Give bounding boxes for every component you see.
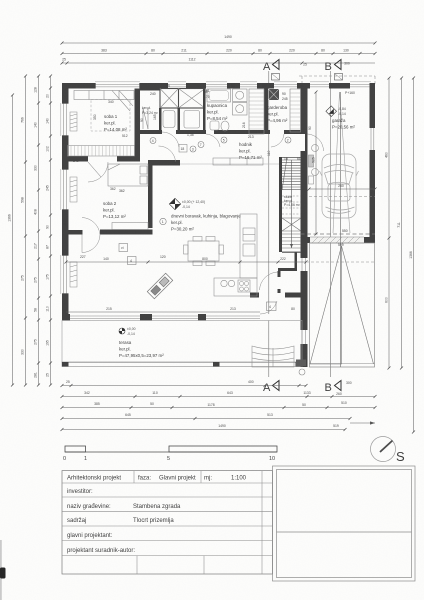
WC label — [142, 106, 159, 115]
wall kupaonica/garderoba — [264, 89, 268, 133]
entrance door arc — [260, 301, 277, 314]
right dimension chain line 1 — [385, 77, 391, 370]
shaft box with X cells — [160, 89, 205, 109]
hodnik label — [239, 142, 262, 160]
section line A — [268, 71, 270, 377]
garage label — [332, 118, 355, 130]
top dimension chain line 1 (1490 overall) — [61, 35, 377, 45]
kitchen counter vertical — [240, 214, 257, 278]
wall soba2 right (W5) — [148, 162, 153, 229]
soba1 radiator — [70, 112, 77, 131]
hodnik bench — [213, 158, 263, 165]
title block right empty box — [273, 466, 416, 581]
driveway ramp triangle left — [310, 246, 342, 364]
title block text area — [62, 471, 273, 574]
garage roof lines — [333, 92, 340, 233]
garderoba door arc — [271, 134, 284, 147]
circled label hodnik left — [198, 142, 204, 148]
driveway slab below garage — [310, 243, 375, 367]
living radiator — [70, 262, 77, 287]
kupaonica bathtub — [207, 89, 231, 102]
window N7 garage right — [350, 83, 371, 89]
soba1 room label — [104, 114, 127, 132]
bottom dimension chain line 3 — [61, 401, 377, 409]
stairs left wall — [279, 157, 282, 252]
fireplace diagonal — [147, 273, 172, 298]
left dimension chain line 3 — [34, 75, 41, 387]
title block row 1 text — [67, 476, 247, 482]
window N4 garderoba — [240, 83, 257, 89]
kupaonica washer+dryer — [233, 89, 248, 115]
driveway ramp triangle right — [342, 246, 374, 364]
ramp centre line — [340, 92, 342, 367]
garage side fixtures — [309, 145, 319, 185]
circled label living — [160, 218, 166, 224]
kupaonica sink and wc — [210, 121, 229, 131]
terrace label — [119, 340, 164, 358]
window W3 dnevni — [62, 255, 69, 294]
section marker B top — [325, 60, 343, 81]
entrance mat block — [296, 360, 306, 367]
left dimension chain line 1 (outermost, 1366) — [8, 94, 15, 387]
right dimension chain line 3 (outermost) — [409, 77, 415, 434]
exterior wall: top (north) — [62, 83, 375, 89]
circled label soba2 door — [150, 138, 156, 144]
WC fixture — [163, 111, 175, 128]
window sill lines top — [95, 81, 371, 83]
right dimension chain line 2 — [397, 77, 403, 370]
garderoba label — [267, 105, 288, 123]
soba2 desk — [112, 223, 148, 230]
entrance steps — [252, 346, 294, 367]
window N2 shaft — [168, 83, 186, 89]
section line B — [330, 71, 332, 377]
window W2 soba2 — [62, 169, 69, 210]
scan artifact gray streak — [0, 540, 2, 600]
elevation marker living — [169, 198, 205, 209]
garderoba wardrobe right — [290, 89, 301, 132]
door arc soba2 bottom — [69, 230, 83, 235]
bottom dimension chain line 5 (1490) — [61, 424, 347, 431]
wall below soba2 (W6) — [100, 230, 153, 235]
scale bar — [65, 446, 277, 452]
circled label kupaonica — [221, 137, 227, 143]
WC / shower dividing walls — [159, 108, 162, 132]
party wall house/garage (east wall of house) — [301, 83, 308, 134]
boxed label entrance — [267, 302, 277, 311]
garage internal vertical dim — [312, 91, 318, 236]
vestibule door arc — [260, 272, 278, 290]
interior wall shaft area — [140, 89, 205, 91]
section marker B bottom — [325, 381, 352, 395]
living room label — [171, 214, 241, 232]
roof overhang dashed outline above garage — [299, 76, 375, 84]
wall hodnik/living (W9) — [148, 160, 180, 166]
garderoba wardrobe left — [249, 89, 264, 134]
wall below small rooms (W4) — [140, 130, 162, 134]
garage car — [320, 154, 359, 218]
north symbol — [371, 437, 406, 465]
circled label hodnik right — [285, 137, 291, 143]
top dimension chain line 2 (segments) — [61, 49, 377, 56]
internal dim line living lower — [66, 307, 295, 312]
soba2 radiator — [70, 177, 77, 202]
window W1 soba1 — [62, 103, 69, 136]
interior wall soba1/soba2 (W2) — [62, 156, 88, 162]
bottom dimension chain line 2 — [61, 391, 377, 398]
south wall of house (glazed) — [62, 314, 281, 321]
WC door niche — [143, 108, 148, 129]
scattered small dims — [63, 84, 348, 259]
section marker A top — [263, 60, 280, 81]
left dimension chain line 4 (innermost) — [46, 75, 53, 387]
soba2 door arc bottom — [82, 218, 100, 235]
kupaonica label — [207, 103, 228, 121]
vestibule south wall — [285, 293, 305, 298]
garage elevation marker — [326, 106, 346, 117]
entrance circle — [299, 369, 305, 375]
scan artifact black mark left edge — [0, 568, 6, 579]
soba1 dashed bed projection — [91, 100, 130, 132]
exterior wall: left (west) — [62, 83, 69, 316]
top dimension chain line 3 (25 / 1112) — [61, 58, 376, 67]
interior wall soba1 right (W1) — [135, 89, 141, 162]
vestibule wall (W10) — [295, 252, 298, 268]
window N3 kupaonica — [206, 83, 227, 89]
window N5 hodnik — [274, 83, 297, 89]
garage right wall (east) — [370, 83, 376, 240]
bottom dimension chain line 1 — [61, 380, 308, 387]
window N1 soba1 — [95, 83, 140, 89]
window sill lines left — [60, 103, 62, 294]
left dimension chain line 2 — [21, 75, 28, 387]
garage door wall (south of garage) — [301, 233, 376, 235]
kitchen counter bottom L — [214, 278, 257, 296]
soba1 bed — [74, 91, 134, 112]
WC door arc — [162, 132, 179, 147]
section marker A bottom — [263, 381, 279, 395]
terrace outline — [62, 321, 302, 367]
soba2 bed — [108, 164, 148, 186]
bottom dimension chain line 4 — [61, 413, 376, 425]
door arc soba1 to soba2 — [88, 162, 108, 182]
boxed label vi — [119, 244, 128, 252]
internal dim chain living — [65, 257, 376, 264]
soba2 label — [103, 201, 126, 219]
tiny parapet numbers — [204, 90, 288, 101]
kupaonica door arc — [206, 134, 220, 147]
garderoba corner shaft — [269, 89, 280, 100]
soba1 wardrobe — [68, 146, 135, 157]
staircase — [282, 158, 301, 252]
dining table — [184, 237, 224, 266]
window N6 garage left — [310, 83, 329, 89]
terrace elevation marker — [119, 327, 136, 336]
boxed label 4 — [128, 257, 137, 265]
garage door arc — [308, 134, 324, 151]
garage internal dim — [308, 184, 377, 197]
soba2 door arc — [159, 146, 176, 162]
shower tray — [184, 111, 200, 129]
